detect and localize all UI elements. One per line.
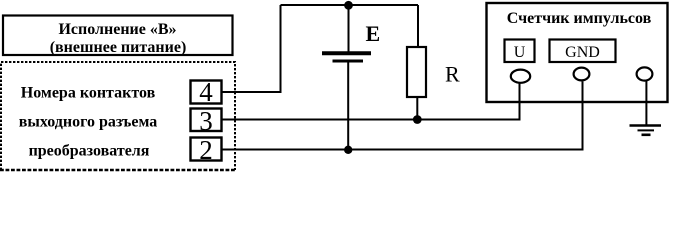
- svg-text:R: R: [445, 62, 460, 87]
- wire earth terminal lead: [645, 81, 647, 126]
- svg-text:E: E: [366, 21, 381, 46]
- node resistor bottom: [413, 115, 422, 124]
- wire resistor bottom lead: [416, 97, 418, 120]
- node battery bottom: [344, 146, 352, 154]
- caption box "Исполнение В": [3, 16, 233, 56]
- svg-text:(внешнее питание): (внешнее питание): [50, 39, 187, 56]
- wire battery bottom lead: [347, 63, 349, 150]
- svg-text:Номера контактов: Номера контактов: [21, 85, 156, 102]
- wire top rail: [281, 4, 419, 6]
- svg-text:3: 3: [199, 106, 213, 136]
- pin 3 box: [191, 106, 222, 136]
- GND terminal box: [550, 40, 616, 63]
- ground symbol: [630, 126, 662, 135]
- svg-text:выходного разъема: выходного разъема: [19, 114, 158, 131]
- pin 4 box: [191, 77, 222, 107]
- svg-text:U: U: [514, 44, 526, 61]
- wire pin4 to top rail: [222, 5, 281, 92]
- node battery top: [344, 1, 353, 10]
- resistor R: [407, 47, 460, 97]
- terminal circle GND: [574, 68, 590, 81]
- pin 2 box: [191, 135, 222, 165]
- terminal circle U: [511, 70, 530, 83]
- battery E: [322, 21, 380, 61]
- svg-text:Исполнение «В»: Исполнение «В»: [58, 21, 176, 38]
- svg-text:2: 2: [199, 135, 213, 165]
- svg-text:преобразователя: преобразователя: [29, 143, 150, 160]
- wire resistor top lead: [417, 5, 419, 46]
- U terminal box: [505, 40, 535, 63]
- wire pin3 rail to U terminal: [222, 83, 520, 120]
- svg-text:4: 4: [199, 77, 213, 107]
- terminal circle earth: [637, 67, 653, 80]
- svg-text:GND: GND: [565, 44, 600, 61]
- wire battery top lead: [348, 5, 350, 53]
- counter box "Счетчик импульсов": [487, 3, 668, 102]
- wire pin2 rail to GND terminal: [222, 82, 583, 150]
- contacts box (dotted): [1, 62, 235, 170]
- svg-text:Счетчик импульсов: Счетчик импульсов: [507, 10, 652, 27]
